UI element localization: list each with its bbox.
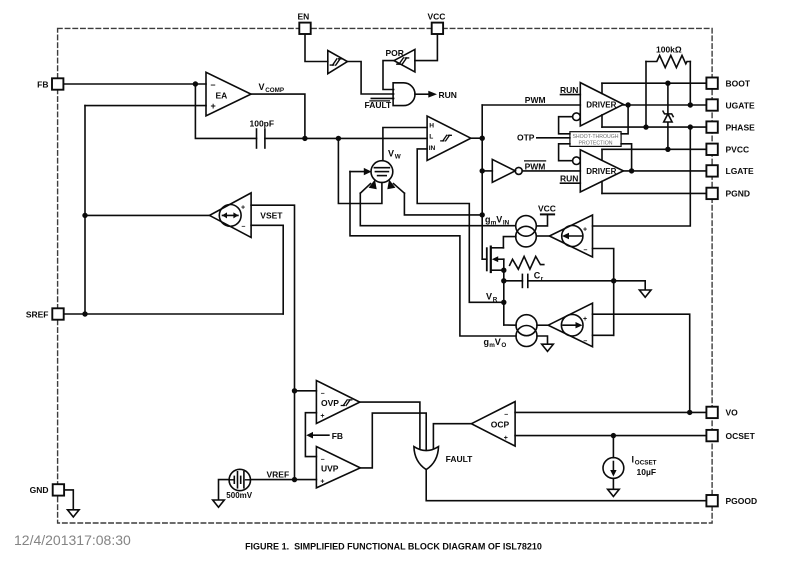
svg-text:+: + <box>211 101 216 111</box>
label FAULT (active low) <box>365 100 393 110</box>
wire: PWM to upper driver <box>482 104 580 106</box>
generator VW window voltage <box>371 161 393 183</box>
wire: OCP output to OR gate <box>433 424 471 453</box>
svg-text:V: V <box>495 337 501 347</box>
svg-text:L: L <box>429 134 433 141</box>
wire: OVP output to OR gate <box>360 402 420 453</box>
wire: 100k left leg to PHASE <box>645 62 647 128</box>
node: zener bottom <box>665 147 670 152</box>
node: VSET output on rail <box>82 213 87 218</box>
wire: cap to comparator L input (VCOMP line) <box>265 137 427 139</box>
node: Cr left junction <box>501 278 506 283</box>
pin SREF <box>26 308 64 319</box>
pin FB <box>37 78 63 89</box>
svg-text:GND: GND <box>30 485 49 495</box>
svg-text:I: I <box>632 455 635 465</box>
and-gate U4 run logic <box>393 83 415 106</box>
svg-text:IN: IN <box>503 220 510 227</box>
wire: GND pin to ground <box>64 490 73 510</box>
svg-text:PHASE: PHASE <box>726 122 756 132</box>
svg-text:VCC: VCC <box>538 204 556 214</box>
wire: mirror to VCC tee <box>536 214 547 226</box>
wire: UGATE rail <box>623 104 706 106</box>
or-gate U14 FAULT <box>414 447 473 470</box>
svg-text:UGATE: UGATE <box>726 100 755 110</box>
power VCC tee <box>538 204 556 215</box>
node: upper driver output <box>625 102 630 107</box>
wire: UVP output to OR gate <box>360 413 426 468</box>
pin PGOOD <box>706 495 757 506</box>
svg-text:PVCC: PVCC <box>726 145 750 155</box>
node: zener top <box>665 81 670 86</box>
svg-text:DRIVER: DRIVER <box>586 100 616 109</box>
svg-text:–: – <box>211 80 216 90</box>
node: VR junction <box>501 300 506 305</box>
label IOCSET 10uF <box>632 455 657 477</box>
wire: lower driver RUN stub <box>560 174 580 184</box>
wire: EN buffer output to AND gate <box>347 62 393 95</box>
svg-text:100kΩ: 100kΩ <box>656 44 682 54</box>
pin PVCC <box>706 144 749 155</box>
wire: PWM vertical rail <box>481 105 483 259</box>
wire: FB node down to 100pF feedback line <box>195 84 256 138</box>
ground: 500mV <box>213 500 225 507</box>
wire: FB arrow <box>306 431 343 441</box>
buffer U3 POR hysteresis <box>386 48 415 72</box>
svg-text:OVP: OVP <box>321 398 339 408</box>
svg-text:PROTECTION: PROTECTION <box>578 141 612 147</box>
pin PHASE <box>706 121 755 132</box>
svg-text:W: W <box>395 153 401 160</box>
comparator U15 OCP <box>471 402 515 447</box>
svg-text:FAULT: FAULT <box>446 454 474 464</box>
wire: PHASE down to gmVIN sense <box>593 127 691 226</box>
node: VCOMP join <box>302 136 307 141</box>
svg-text:+: + <box>320 413 324 420</box>
capacitor C2 Cr <box>504 271 645 288</box>
svg-text:–: – <box>321 456 325 463</box>
svg-text:V: V <box>486 292 492 302</box>
label VW <box>388 148 401 160</box>
svg-text:OCP: OCP <box>491 419 510 429</box>
svg-text:VCC: VCC <box>428 12 446 22</box>
wire: OCSET line <box>515 435 706 437</box>
svg-text:500mV: 500mV <box>226 491 252 500</box>
wire: IN input from VR <box>417 149 504 302</box>
svg-text:PGND: PGND <box>726 189 751 199</box>
comparator U5 PWM window H/L/IN <box>427 116 471 161</box>
amplifier VSET <box>210 193 252 238</box>
label gmVIN <box>485 215 510 227</box>
op-amp EA <box>206 72 251 116</box>
current-mirror M1 gmVIN <box>516 216 537 247</box>
svg-text:+: + <box>583 316 587 323</box>
svg-text:PWM: PWM <box>525 161 546 171</box>
pin BOOT <box>706 78 750 89</box>
wire: left rail down to SREF <box>84 106 86 314</box>
svg-text:VO: VO <box>726 408 739 418</box>
wire: VW left control input (arrow) <box>350 168 516 336</box>
svg-text:OCSET: OCSET <box>726 431 756 441</box>
svg-text:DRIVER: DRIVER <box>586 167 616 176</box>
svg-text:LGATE: LGATE <box>726 166 755 176</box>
transconductance-amp U10 gmVIN sense <box>536 215 592 257</box>
wire: EA + input <box>85 105 206 107</box>
svg-text:FB: FB <box>37 79 48 89</box>
node: lower driver output <box>629 168 634 173</box>
pin VO <box>706 407 738 418</box>
svg-text:12/4/201317:08:30: 12/4/201317:08:30 <box>14 532 131 548</box>
node: source junction <box>501 268 506 273</box>
node: inverter tap <box>480 168 485 173</box>
svg-text:RUN: RUN <box>560 85 578 95</box>
node: 100k to PHASE <box>643 124 648 129</box>
label OTP with wire <box>517 133 570 143</box>
node: VREF on VSET rail <box>292 477 297 482</box>
wire: PHASE rail <box>602 115 706 127</box>
svg-text:H: H <box>429 122 434 129</box>
wire: FAULT stub into AND gate <box>371 97 393 99</box>
wire: VREF line to UVP+ <box>251 479 317 481</box>
wire: upper driver shoot-through loop <box>559 117 573 134</box>
svg-text:V: V <box>259 82 265 92</box>
svg-text:COMP: COMP <box>265 87 284 94</box>
wire: EN pin to buffer <box>305 34 328 62</box>
label VCOMP <box>259 82 285 94</box>
pin VCC <box>428 12 446 35</box>
svg-text:–: – <box>504 412 508 419</box>
svg-text:V: V <box>388 148 394 158</box>
wire: OVP - input <box>295 390 317 392</box>
block U9 shoot-through protection <box>570 132 621 147</box>
svg-text:–: – <box>584 247 588 254</box>
node: VW bottom branch <box>336 136 341 141</box>
wire: gmVO - input from Cr node <box>593 334 614 336</box>
wire: box to upper driver output <box>621 105 628 134</box>
pin GND <box>30 484 64 495</box>
wire: VSET output to left rail <box>85 214 210 216</box>
wire: SREF up to VSET minus <box>251 225 283 314</box>
wire: VO line <box>515 411 706 413</box>
pin PGND <box>706 188 750 199</box>
node: PWM junction <box>480 136 485 141</box>
label PWM-bar <box>525 161 546 171</box>
svg-text:EA: EA <box>216 91 228 101</box>
wire: lower driver shoot-through loop <box>559 144 573 161</box>
svg-text:R: R <box>493 297 498 304</box>
svg-text:g: g <box>484 337 490 347</box>
wire: FB pin to EA inverting input <box>63 83 206 85</box>
ground: GND pin <box>68 510 80 517</box>
pin LGATE <box>706 165 754 176</box>
wire: SREF pin line <box>64 313 283 315</box>
wire: VCC pin to POR <box>415 34 438 61</box>
svg-text:C: C <box>534 271 541 281</box>
node: VO sense <box>687 410 692 415</box>
svg-text:–: – <box>583 338 587 345</box>
node: OVP- on VSET rail <box>292 388 297 393</box>
wire: H input from VW top <box>383 128 427 161</box>
wire: mirror lower to ground <box>537 336 548 344</box>
node: IOCSET tap <box>611 433 616 438</box>
current-mirror M2 gmVO <box>516 315 537 347</box>
svg-text:VSET: VSET <box>260 211 283 221</box>
node: VW modulation tap <box>480 212 485 217</box>
IC boundary dashed border <box>58 28 713 523</box>
ground: IOCSET <box>608 489 620 496</box>
svg-text:FB: FB <box>332 431 343 441</box>
svg-text:PGOOD: PGOOD <box>726 496 758 506</box>
label VR <box>486 292 498 304</box>
wire: FB rail OVP+/UVP- <box>305 413 316 457</box>
source V1 500mV <box>226 469 252 500</box>
wire: gmVO + input to VO line <box>593 314 690 412</box>
wire: gmVIN - input to Cr node <box>593 249 614 336</box>
svg-text:–: – <box>242 224 246 231</box>
wire: VW bottom to VCOMP <box>338 138 382 203</box>
wire: EA output VCOMP <box>251 94 305 138</box>
svg-text:RUN: RUN <box>439 90 457 100</box>
comparator U13 UVP <box>316 447 360 488</box>
svg-text:+: + <box>504 435 508 442</box>
driver U7 upper (UGATE) <box>573 83 624 126</box>
svg-text:UVP: UVP <box>321 464 339 474</box>
svg-text:100pF: 100pF <box>250 119 275 129</box>
wire: VR down to gmVO mirror <box>504 324 516 326</box>
wire: PWM-bar to lower driver <box>522 170 580 172</box>
svg-text:RUN: RUN <box>560 174 578 184</box>
svg-text:+: + <box>241 204 245 211</box>
svg-text:+: + <box>320 478 324 485</box>
wire: Cr to ground <box>644 281 646 290</box>
pin EN <box>298 12 311 35</box>
svg-text:g: g <box>485 215 491 225</box>
wire: FAULT to PGOOD line <box>426 469 706 500</box>
label gmVO <box>484 337 507 349</box>
svg-text:OTP: OTP <box>517 133 535 143</box>
svg-text:–: – <box>321 391 325 398</box>
wire: 100k right leg to UGATE <box>689 62 691 106</box>
wire: POR output to AND gate <box>383 61 394 90</box>
svg-text:O: O <box>501 342 506 349</box>
wire: BOOT rail <box>602 83 706 93</box>
wire: box to lower driver output <box>621 144 632 171</box>
svg-text:+: + <box>583 227 587 234</box>
wire: RUN output with arrow <box>415 90 457 100</box>
wire: LGATE rail <box>623 170 706 172</box>
svg-text:10µF: 10µF <box>637 467 657 477</box>
svg-text:SREF: SREF <box>26 309 49 319</box>
comparator U12 OVP <box>316 381 359 424</box>
inverter U6 PWM-bar <box>482 159 522 182</box>
svg-text:PWM: PWM <box>525 95 546 105</box>
ground: gmVO mirror <box>542 344 554 351</box>
transconductance-amp U11 gmVO sense <box>537 303 593 347</box>
svg-text:V: V <box>496 215 502 225</box>
pin OCSET <box>706 430 755 441</box>
svg-text:VREF: VREF <box>267 469 290 479</box>
buffer U2 EN hysteresis <box>328 51 348 74</box>
wire: comparator output PWM node <box>471 137 482 139</box>
svg-text:POR: POR <box>386 48 404 58</box>
wire: upper driver RUN stub <box>560 85 580 95</box>
wire: VSET plus to OVP/UVP rail <box>251 205 294 479</box>
node: 100k to UGATE <box>688 102 693 107</box>
node: PHASE sense tap <box>688 124 693 129</box>
resistor R2 slope <box>510 256 544 269</box>
svg-text:BOOT: BOOT <box>726 79 751 89</box>
svg-text:EN: EN <box>298 12 310 22</box>
node: Cr right junction <box>611 278 616 283</box>
resistor R1 100k <box>646 44 690 67</box>
ground: Cr <box>639 290 651 297</box>
transistor Q1 ripple switch <box>482 247 504 325</box>
node: SREF junction <box>82 311 87 316</box>
current-source I1 IOCSET <box>603 436 624 490</box>
wire: PVCC rail <box>602 149 706 160</box>
wire: 500mV to ground <box>219 480 230 500</box>
svg-text:SHOOT-THROUGH: SHOOT-THROUGH <box>572 134 618 140</box>
wire: PGND rail <box>602 181 706 193</box>
diode D1 bootstrap zener <box>663 83 673 149</box>
pin UGATE <box>706 99 755 110</box>
svg-text:FIGURE 1. SIMPLIFIED FUNCTION: FIGURE 1. SIMPLIFIED FUNCTIONAL BLOCK DI… <box>245 542 542 552</box>
wire: VW lower-left control (arrow) from gmVIN <box>360 179 515 225</box>
svg-text:IN: IN <box>429 145 436 152</box>
svg-text:OCSET: OCSET <box>635 460 657 467</box>
wire: mirror lower to MOSFET drain <box>503 237 516 248</box>
wire: VW lower-right control (arrow) from PWM <box>387 179 482 215</box>
driver U8 lower (LGATE) <box>573 150 624 192</box>
capacitor C1 100pF <box>250 119 275 149</box>
node: FB/EA- junction <box>193 81 198 86</box>
